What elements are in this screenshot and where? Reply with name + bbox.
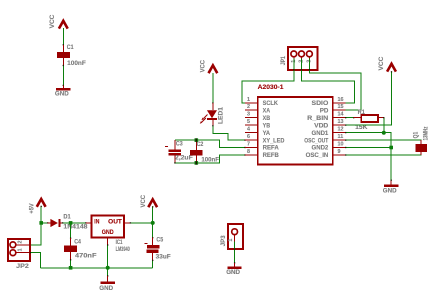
svg-text:4: 4: [247, 127, 250, 133]
junction C2 bottom: [195, 161, 199, 165]
wire C1 to GND: [63, 65, 64, 86]
wire D1 to IC1 IN: [62, 222, 87, 223]
wire R1 to GND1 row: [383, 117, 384, 133]
pin 15 PD: [320, 104, 346, 114]
pin 11 OSC_OUT: [304, 134, 345, 144]
svg-text:+5V: +5V: [28, 203, 35, 214]
crystal Q1 13MHz: [412, 127, 429, 155]
svg-text:2,2uF: 2,2uF: [175, 155, 193, 162]
pin 16 SDIO: [312, 97, 346, 107]
svg-text:JP3: JP3: [220, 235, 227, 246]
pin 9 OSC_IN: [306, 149, 346, 159]
svg-text:8: 8: [247, 149, 250, 155]
supply VCC right: [378, 56, 396, 71]
junction +5V/D1: [39, 221, 43, 225]
capacitor C2 100nF: [190, 140, 219, 163]
supply +5V: [28, 199, 45, 214]
IC U1 A2030-1 body: [258, 84, 333, 165]
wire IC1 GND to rail: [107, 244, 108, 267]
svg-text:C4: C4: [74, 238, 81, 245]
pin 12 GND1: [312, 127, 346, 137]
capacitor C1 100nF: [57, 44, 86, 67]
capacitor C4 470nF: [64, 238, 97, 260]
svg-text:11: 11: [338, 134, 344, 140]
wire VCC to LED1: [212, 73, 213, 104]
pin 14 R_BIN: [307, 112, 346, 122]
svg-text:GND: GND: [383, 187, 397, 194]
pin 4 YA: [245, 127, 271, 137]
svg-text:1: 1: [247, 97, 250, 103]
svg-text:R_BIN: R_BIN: [307, 115, 329, 122]
svg-text:OSC_IN: OSC_IN: [306, 152, 329, 159]
svg-text:10: 10: [338, 142, 344, 148]
wire OSC_OUT to Q1: [345, 139, 421, 144]
svg-text:GND1: GND1: [312, 130, 329, 137]
pin 10 GND2: [312, 142, 346, 152]
svg-text:6: 6: [247, 134, 250, 140]
supply VCC top-left: [49, 14, 67, 28]
svg-text:3: 3: [247, 112, 250, 118]
svg-text:15: 15: [338, 104, 344, 110]
svg-text:16: 16: [338, 97, 344, 103]
svg-text:100nF: 100nF: [67, 60, 86, 67]
svg-text:JP2: JP2: [16, 263, 29, 270]
svg-text:VDD: VDD: [314, 122, 329, 129]
pin 1 SCLK: [245, 97, 278, 107]
wire net REFA: [175, 140, 246, 148]
ground right column: [383, 180, 399, 195]
junction C4 top: [69, 221, 73, 225]
svg-text:9: 9: [338, 149, 341, 155]
svg-text:OSC_OUT: OSC_OUT: [304, 137, 328, 144]
svg-text:470nF: 470nF: [75, 252, 97, 259]
pin 2 XA: [245, 104, 271, 114]
wire rail to ground symbol: [107, 268, 108, 277]
svg-text:13: 13: [338, 119, 344, 125]
svg-text:LED1: LED1: [217, 106, 224, 124]
junction C2 top: [195, 138, 199, 142]
wire LED1 to pin XY_LED: [212, 125, 245, 141]
wire IC1 OUT to VCC column: [130, 222, 153, 223]
svg-text:1N4148: 1N4148: [63, 223, 88, 230]
wire JP3 to GND: [234, 235, 235, 264]
svg-text:VCC: VCC: [200, 60, 207, 73]
svg-text:5: 5: [247, 119, 250, 125]
supply VCC above LED1: [200, 60, 218, 74]
pin 3 XB: [245, 112, 271, 122]
svg-text:JP1: JP1: [280, 56, 287, 65]
junction C4 bottom: [69, 266, 73, 270]
svg-text:A2030-1: A2030-1: [258, 84, 284, 91]
svg-text:33uF: 33uF: [156, 253, 171, 260]
svg-text:C5: C5: [156, 237, 163, 244]
svg-text:VCC: VCC: [49, 14, 56, 28]
wire GND2 to gnd column: [345, 147, 391, 148]
svg-text:GND: GND: [99, 285, 113, 292]
svg-text:1: 1: [228, 239, 234, 242]
pin 6 XY_LED: [245, 134, 285, 144]
ground under C1: [55, 85, 71, 97]
wire GND1 to gnd column: [345, 132, 391, 180]
capacitor C5 33uF: [145, 237, 171, 261]
svg-text:SDIO: SDIO: [312, 100, 329, 107]
svg-text:D1: D1: [63, 214, 71, 221]
svg-text:R1: R1: [358, 109, 366, 116]
wire C4 top lead: [70, 223, 71, 239]
svg-text:7: 7: [247, 142, 250, 148]
wire JP1 pin1 to SCLK: [242, 57, 294, 103]
pin 8 REFB: [245, 149, 279, 159]
svg-text:VCC: VCC: [378, 56, 385, 70]
wire VCC to C5: [152, 206, 153, 238]
svg-text:SCLK: SCLK: [263, 100, 279, 107]
wire C4 bottom to gnd rail: [70, 259, 71, 268]
capacitor C3 2,2uF: [165, 140, 193, 163]
svg-text:PD: PD: [320, 107, 329, 114]
junction GND2: [389, 146, 393, 150]
wire +5V to D1: [41, 222, 48, 223]
wire JP1 pin3 to PD: [309, 57, 361, 110]
svg-text:GND: GND: [55, 90, 69, 97]
pin 5 YB: [245, 119, 271, 129]
ground JP3: [226, 263, 242, 276]
svg-text:2: 2: [247, 104, 250, 110]
wire net REFB: [175, 154, 246, 163]
LED LED1: [200, 103, 225, 126]
svg-text:2: 2: [17, 241, 23, 244]
svg-text:XA: XA: [263, 107, 271, 114]
svg-text:REFA: REFA: [263, 145, 280, 152]
wire gnd rail: [41, 267, 153, 269]
svg-text:VCC: VCC: [140, 195, 147, 208]
wire VDD to VCC: [345, 71, 392, 126]
junction OUT/VCC/C5: [151, 221, 155, 225]
junction R1/GND1: [382, 131, 386, 135]
voltage regulator IC1 LM3940: [86, 215, 131, 253]
svg-text:GND: GND: [226, 269, 240, 276]
supply VCC above C5: [140, 195, 157, 208]
wire C5 bottom to gnd rail: [152, 260, 153, 268]
svg-text:IN: IN: [94, 219, 99, 226]
junction IC1 GND: [106, 266, 110, 270]
svg-text:OUT: OUT: [108, 219, 122, 226]
svg-text:XB: XB: [263, 115, 271, 122]
svg-text:C1: C1: [67, 44, 74, 51]
ground power rail: [99, 276, 114, 292]
svg-text:XY_LED: XY_LED: [263, 137, 285, 144]
wire RBIN to R1: [345, 117, 354, 118]
connector JP2: [8, 239, 30, 270]
svg-text:YA: YA: [263, 130, 271, 137]
wire VCC to C1: [63, 28, 64, 45]
wire JP2 pin1 to gnd rail: [30, 252, 41, 268]
svg-text:12: 12: [338, 127, 344, 133]
wire +5V column: [30, 206, 42, 246]
svg-text:14: 14: [338, 112, 344, 118]
svg-text:C2: C2: [197, 141, 204, 148]
svg-text:Q1: Q1: [412, 131, 419, 138]
svg-text:1: 1: [17, 248, 23, 251]
svg-text:LM3940: LM3940: [116, 246, 131, 253]
svg-text:YB: YB: [263, 122, 271, 129]
connector JP1: [280, 47, 317, 70]
svg-text:13MHz: 13MHz: [423, 127, 430, 141]
wire JP1 pin2 to SDIO: [301, 57, 354, 103]
resistor R1 15K: [354, 109, 384, 131]
connector JP3: [220, 224, 243, 249]
pin 7 REFA: [245, 142, 279, 152]
svg-text:REFB: REFB: [263, 152, 280, 159]
svg-text:100nF: 100nF: [201, 156, 219, 163]
wire OSC_IN to Q1: [345, 152, 421, 156]
diode D1 1N4148: [48, 214, 88, 231]
svg-text:C3: C3: [176, 141, 183, 148]
svg-text:GND2: GND2: [312, 145, 329, 152]
svg-text:GND: GND: [102, 229, 114, 236]
pin 13 VDD: [314, 119, 346, 129]
